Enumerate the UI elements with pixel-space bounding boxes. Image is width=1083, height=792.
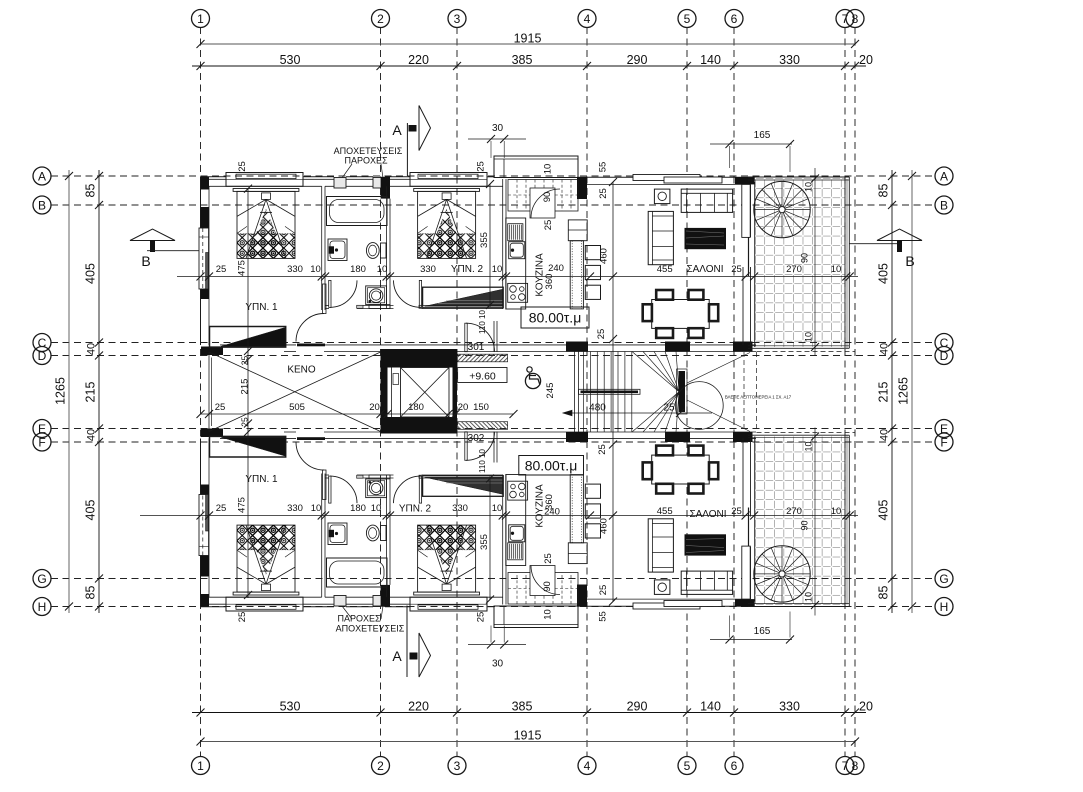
svg-text:25: 25 (598, 585, 609, 596)
svg-text:2: 2 (377, 759, 384, 773)
svg-text:530: 530 (280, 53, 301, 67)
svg-text:3: 3 (454, 759, 461, 773)
svg-text:25: 25 (215, 402, 226, 413)
hatched wall strip lobby (458, 354, 508, 362)
stair winders (632, 352, 679, 392)
svg-text:25: 25 (597, 444, 608, 455)
svg-text:85: 85 (877, 184, 891, 198)
svg-text:80.00τ.μ: 80.00τ.μ (529, 310, 582, 326)
section marker A top (406, 123, 408, 176)
sofa vertical (648, 211, 673, 264)
svg-text:330: 330 (779, 700, 800, 714)
interior dim chain bottom y515.5 (140, 515, 858, 517)
wardrobe bedroom1 (210, 327, 286, 348)
threshold bed2 door (419, 305, 423, 308)
kitchen closet dashed (508, 180, 578, 212)
svg-text:40: 40 (879, 343, 891, 355)
stair newel (679, 371, 686, 412)
svg-text:A: A (392, 122, 402, 138)
svg-text:ΚΟΥΖΙΝΑ: ΚΟΥΖΙΝΑ (535, 253, 546, 297)
svg-text:90: 90 (542, 581, 553, 592)
plumbing shaft boxes (334, 178, 346, 189)
svg-text:ΠΑΡΟΧΕΣ: ΠΑΡΟΧΕΣ (337, 614, 381, 624)
bed 1 (233, 189, 299, 192)
svg-text:B: B (141, 253, 150, 269)
svg-text:20: 20 (859, 700, 873, 714)
kitchen upper cabinet (568, 220, 587, 241)
svg-text:3: 3 (454, 12, 461, 26)
dimension chain bottom (192, 712, 866, 714)
svg-text:10: 10 (804, 441, 814, 451)
wall black segment bath/bed2 (381, 177, 390, 199)
svg-text:505: 505 (289, 402, 305, 413)
svg-text:165: 165 (754, 626, 771, 637)
svg-text:10: 10 (831, 506, 842, 517)
section marker B left (130, 229, 175, 241)
balcony sliding door (742, 184, 750, 237)
svg-text:6: 6 (731, 12, 738, 26)
svg-text:90: 90 (800, 253, 810, 263)
svg-text:5: 5 (684, 759, 691, 773)
svg-text:H: H (38, 600, 47, 614)
svg-text:25: 25 (237, 161, 248, 172)
svg-text:55: 55 (598, 162, 609, 173)
svg-text:A: A (38, 169, 46, 183)
svg-text:25: 25 (216, 503, 227, 514)
svg-text:220: 220 (408, 700, 429, 714)
svg-text:460: 460 (599, 518, 610, 534)
door arc bedroom1 (296, 314, 324, 342)
partition bed2/kitchen (502, 179, 504, 309)
interior dim chain central y414 (201, 413, 461, 415)
dish drainer (508, 224, 523, 241)
svg-text:1265: 1265 (54, 377, 68, 405)
svg-text:ΣΑΛΟΝΙ: ΣΑΛΟΝΙ (689, 509, 726, 520)
stair treads (583, 352, 585, 433)
svg-text:270: 270 (786, 506, 802, 517)
svg-text:B: B (38, 198, 46, 212)
corridor east wall (493, 321, 495, 352)
svg-text:A: A (392, 648, 402, 664)
svg-text:4: 4 (584, 759, 591, 773)
wall black segs band C (566, 342, 588, 352)
svg-text:30: 30 (492, 123, 504, 134)
svg-text:10: 10 (371, 503, 382, 514)
svg-text:ΚΟΥΖΙΝΑ: ΚΟΥΖΙΝΑ (535, 484, 546, 528)
svg-text:B: B (905, 253, 914, 269)
grid bubbles bottom (192, 757, 210, 775)
wall band C (corridor north) (220, 344, 296, 346)
svg-text:302: 302 (468, 433, 485, 444)
svg-text:150: 150 (473, 402, 489, 413)
kitchen sink (509, 242, 525, 259)
svg-text:270: 270 (786, 264, 802, 275)
svg-text:1: 1 (197, 759, 204, 773)
window bay bedroom2 (410, 173, 487, 187)
living east wall (742, 184, 744, 237)
svg-text:10: 10 (543, 164, 554, 175)
stove (508, 283, 528, 302)
svg-text:110 10: 110 10 (478, 310, 487, 334)
kitchen bay (494, 156, 578, 178)
svg-text:385: 385 (512, 53, 533, 67)
toilet (381, 243, 387, 258)
svg-text:30: 30 (492, 659, 504, 670)
exterior wall left (200, 177, 202, 345)
svg-text:140: 140 (700, 700, 721, 714)
svg-text:55: 55 (598, 611, 609, 622)
svg-text:25: 25 (543, 553, 554, 564)
balcony dims bottom (814, 428, 816, 616)
spiral stair (754, 181, 810, 237)
svg-text:480: 480 (589, 403, 606, 414)
svg-text:10: 10 (831, 264, 842, 275)
tv table black (685, 228, 727, 249)
dimension chain left (98, 170, 100, 613)
svg-text:215: 215 (240, 379, 251, 395)
svg-text:25: 25 (237, 612, 248, 623)
svg-text:240: 240 (548, 263, 564, 274)
svg-text:ΒΛΕΠΕ ΛΕΠΤΟΜΕΡΕΙΑ 1 ΣΧ. Α17: ΒΛΕΠΕ ΛΕΠΤΟΜΕΡΕΙΑ 1 ΣΧ. Α17 (725, 395, 792, 400)
svg-text:10: 10 (377, 264, 388, 275)
svg-text:85: 85 (84, 184, 98, 198)
svg-text:D: D (38, 349, 47, 363)
bed 2 (414, 189, 480, 192)
wheelchair symbol (525, 373, 540, 388)
svg-text:475: 475 (237, 497, 248, 513)
svg-text:85: 85 (84, 586, 98, 600)
svg-text:330: 330 (452, 503, 468, 514)
svg-text:215: 215 (84, 382, 98, 403)
svg-text:F: F (38, 435, 45, 449)
svg-text:H: H (940, 600, 949, 614)
wall black segment grid4 (577, 177, 587, 199)
wardrobe bedroom2 (423, 287, 504, 308)
balcony rail top (748, 176, 849, 178)
dimension chain right (891, 170, 893, 613)
svg-text:ΥΠΝ. 1: ΥΠΝ. 1 (245, 474, 278, 485)
interior dim chain top y277 (177, 276, 858, 278)
svg-text:10: 10 (804, 182, 814, 192)
svg-text:ΥΠΝ. 2: ΥΠΝ. 2 (451, 264, 484, 275)
dimension total 1265 right (911, 170, 913, 613)
svg-text:+9.60: +9.60 (469, 371, 496, 383)
svg-text:220: 220 (408, 53, 429, 67)
svg-text:D: D (940, 349, 949, 363)
interior dim vertical x490 (489, 184, 491, 307)
dim 165 top (710, 143, 792, 145)
interior dim vertical x248 (247, 189, 249, 598)
svg-text:90: 90 (800, 520, 810, 530)
svg-text:215: 215 (877, 382, 891, 403)
svg-text:25: 25 (216, 264, 227, 275)
svg-text:40: 40 (86, 429, 98, 441)
svg-text:85: 85 (877, 586, 891, 600)
interior dim vertical x613 (612, 182, 614, 602)
svg-text:A: A (940, 169, 948, 183)
svg-text:8: 8 (852, 12, 859, 26)
svg-text:25: 25 (596, 329, 607, 340)
svg-text:25: 25 (731, 264, 742, 275)
svg-text:ΑΠΟΧΕΤΕΥΣΕΙΣ: ΑΠΟΧΕΤΕΥΣΕΙΣ (334, 146, 403, 156)
svg-text:25: 25 (476, 612, 487, 623)
dimension total 1915 top (201, 43, 856, 45)
svg-text:40: 40 (879, 429, 891, 441)
dim 165 bottom (710, 639, 792, 641)
svg-text:10: 10 (804, 332, 814, 342)
dim 30 bottom (468, 644, 526, 646)
stairwell east dashed (743, 352, 745, 432)
stair arrow (563, 412, 712, 414)
dimension total 1265 left (68, 170, 70, 613)
svg-text:25: 25 (240, 417, 250, 427)
bathtub (327, 197, 388, 226)
svg-text:20: 20 (458, 402, 469, 413)
area box bottom (519, 456, 584, 476)
svg-text:10: 10 (310, 264, 321, 275)
svg-text:165: 165 (754, 130, 771, 141)
svg-text:290: 290 (627, 53, 648, 67)
svg-text:301: 301 (468, 342, 485, 353)
grid axes dashed lines (200, 27, 202, 757)
elevator shaft (381, 349, 458, 434)
svg-text:ΥΠΝ. 1: ΥΠΝ. 1 (245, 302, 278, 313)
svg-text:355: 355 (479, 534, 490, 550)
kitchen bar (570, 241, 583, 309)
void KENO side walls (208, 352, 210, 432)
svg-text:40: 40 (86, 343, 98, 355)
svg-text:4: 4 (584, 12, 591, 26)
threshold bath door (357, 305, 363, 308)
svg-text:ΥΠΝ. 2: ΥΠΝ. 2 (399, 504, 432, 515)
dimension total 1915 bottom (201, 741, 856, 743)
svg-text:F: F (940, 435, 947, 449)
kitchen counter (506, 218, 526, 309)
section marker A bottom (406, 606, 408, 678)
svg-text:110 10: 110 10 (478, 449, 487, 473)
svg-text:330: 330 (287, 264, 303, 275)
svg-text:1915: 1915 (514, 32, 542, 46)
svg-text:10: 10 (492, 503, 503, 514)
svg-text:245: 245 (545, 383, 556, 399)
partition bath/bed2 (386, 186, 388, 308)
svg-text:385: 385 (512, 700, 533, 714)
svg-text:1915: 1915 (514, 729, 542, 743)
svg-text:475: 475 (237, 260, 248, 276)
elevator car (401, 368, 450, 418)
svg-text:140: 140 (700, 53, 721, 67)
balcony rail right (844, 177, 846, 348)
balcony tiles (755, 179, 845, 348)
dimension chain top (192, 65, 866, 67)
door arc bedroom2 (394, 280, 421, 307)
svg-text:5: 5 (684, 12, 691, 26)
section marker B right (877, 229, 922, 241)
svg-text:8: 8 (852, 759, 859, 773)
detail circle (675, 382, 723, 430)
svg-text:180: 180 (350, 503, 366, 514)
svg-text:405: 405 (877, 500, 891, 521)
svg-text:405: 405 (877, 263, 891, 284)
grid bubbles right (935, 167, 953, 185)
svg-text:405: 405 (84, 263, 98, 284)
svg-text:B: B (940, 198, 948, 212)
door arc apartment entry (466, 323, 495, 352)
svg-text:180: 180 (408, 402, 424, 413)
dining chairs (656, 290, 673, 300)
svg-text:290: 290 (627, 700, 648, 714)
svg-text:360: 360 (544, 494, 555, 510)
svg-text:ΣΑΛΟΝΙ: ΣΑΛΟΝΙ (686, 264, 723, 275)
svg-text:455: 455 (657, 264, 673, 275)
svg-text:25: 25 (663, 403, 675, 414)
sofa horizontal (681, 189, 732, 212)
svg-text:25: 25 (543, 220, 554, 231)
svg-text:25: 25 (598, 188, 609, 199)
svg-text:360: 360 (544, 274, 555, 290)
elevator door (391, 368, 393, 418)
living top wall with window (587, 176, 735, 178)
stair handrail (579, 389, 641, 394)
door arc bathroom (330, 280, 357, 307)
svg-text:20: 20 (859, 53, 873, 67)
svg-text:10: 10 (311, 503, 322, 514)
svg-text:330: 330 (287, 503, 303, 514)
balcony dims top (814, 168, 816, 356)
svg-text:G: G (37, 572, 46, 586)
window left bedroom1 (199, 228, 209, 289)
svg-text:80.00τ.μ: 80.00τ.μ (525, 458, 578, 474)
svg-text:ΠΑΡΟΧΕΣ: ΠΑΡΟΧΕΣ (344, 156, 388, 166)
svg-text:330: 330 (779, 53, 800, 67)
svg-text:180: 180 (350, 264, 366, 275)
svg-text:ΑΠΟΧΕΤΕΥΣΕΙΣ: ΑΠΟΧΕΤΕΥΣΕΙΣ (336, 624, 405, 634)
armchair square (654, 189, 670, 204)
dining table (652, 300, 710, 329)
area box top (521, 307, 589, 328)
washing machine (366, 286, 387, 305)
svg-text:2: 2 (377, 12, 384, 26)
bar stools (585, 246, 600, 260)
svg-text:355: 355 (479, 232, 490, 248)
svg-text:1: 1 (197, 12, 204, 26)
svg-text:330: 330 (420, 264, 436, 275)
grid bubbles left (33, 167, 51, 185)
svg-text:90: 90 (542, 192, 553, 203)
bath sink (328, 239, 347, 261)
partition bed1/bath (321, 186, 323, 310)
svg-text:G: G (939, 572, 948, 586)
svg-text:25: 25 (240, 356, 250, 366)
stair west wall (574, 352, 576, 433)
svg-text:10: 10 (804, 592, 814, 602)
wall black segment left at C (201, 347, 223, 356)
bath south wall (325, 305, 329, 307)
svg-text:460: 460 (599, 248, 610, 264)
lobby level box +9.60 (458, 368, 507, 383)
svg-text:6: 6 (731, 759, 738, 773)
grid bubbles top (192, 10, 210, 28)
exterior wall top (201, 176, 227, 178)
svg-text:25: 25 (731, 506, 742, 517)
svg-text:1265: 1265 (897, 377, 911, 405)
svg-text:455: 455 (657, 506, 673, 517)
svg-text:KENO: KENO (287, 365, 316, 376)
void KENO cross (209, 352, 381, 432)
balcony rail bottom (748, 345, 849, 347)
svg-text:25: 25 (476, 161, 487, 172)
window bay bedroom1 (226, 173, 303, 187)
svg-text:405: 405 (84, 500, 98, 521)
svg-text:10: 10 (492, 264, 503, 275)
svg-text:10: 10 (543, 609, 554, 620)
wall black corner right (735, 177, 755, 185)
svg-text:530: 530 (280, 700, 301, 714)
svg-text:20: 20 (369, 402, 380, 413)
dim 30 top (468, 138, 526, 140)
